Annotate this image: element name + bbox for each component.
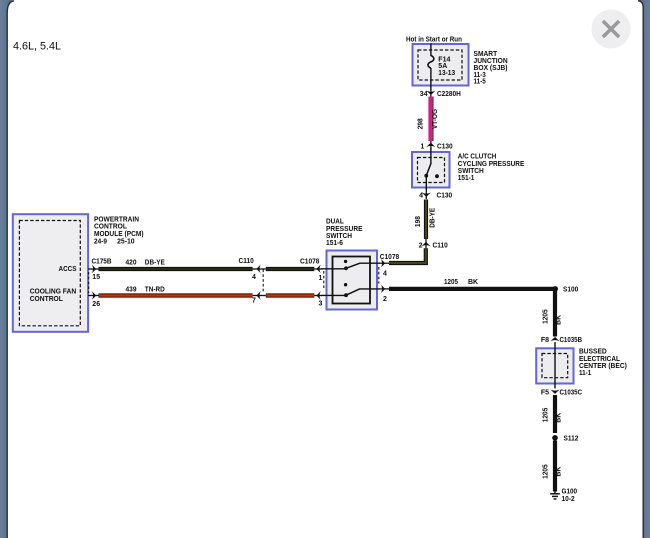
svg-text:4.6L, 5.4L: 4.6L, 5.4L — [13, 40, 61, 52]
svg-text:2: 2 — [383, 296, 387, 303]
svg-text:MODULE (PCM): MODULE (PCM) — [94, 231, 144, 238]
svg-text:C130: C130 — [437, 193, 453, 200]
svg-text:A/C CLUTCH: A/C CLUTCH — [458, 154, 497, 161]
svg-text:S100: S100 — [563, 287, 578, 294]
svg-text:3: 3 — [319, 300, 323, 307]
svg-text:S112: S112 — [564, 436, 579, 443]
svg-text:151-1: 151-1 — [458, 175, 475, 182]
svg-text:1205: 1205 — [444, 279, 458, 286]
svg-text:439: 439 — [126, 286, 137, 293]
svg-text:VT-OG: VT-OG — [432, 108, 439, 129]
svg-text:F8: F8 — [541, 337, 549, 344]
svg-text:ACCS: ACCS — [59, 266, 77, 273]
svg-text:CONTROL: CONTROL — [30, 296, 64, 303]
svg-text:1: 1 — [319, 275, 323, 282]
svg-text:DB-YE: DB-YE — [145, 260, 165, 267]
svg-text:C1078: C1078 — [380, 254, 400, 261]
svg-text:COOLING FAN: COOLING FAN — [30, 289, 76, 296]
svg-text:15: 15 — [92, 274, 100, 281]
svg-text:C2280H: C2280H — [437, 91, 461, 98]
svg-text:13-13: 13-13 — [438, 70, 455, 77]
svg-text:C130: C130 — [437, 143, 453, 150]
svg-text:BK: BK — [556, 315, 563, 325]
svg-text:C1035C: C1035C — [560, 390, 583, 397]
svg-text:C175B: C175B — [92, 259, 112, 266]
svg-text:4: 4 — [252, 274, 256, 281]
svg-text:BK: BK — [556, 467, 563, 477]
svg-text:DB-YE: DB-YE — [430, 207, 437, 227]
svg-text:SWITCH: SWITCH — [458, 168, 484, 175]
svg-text:BUSSED: BUSSED — [579, 349, 607, 356]
svg-text:SWITCH: SWITCH — [326, 233, 352, 240]
svg-text:11-1: 11-1 — [579, 370, 591, 377]
svg-text:34: 34 — [420, 91, 428, 98]
svg-text:C110: C110 — [239, 258, 254, 265]
svg-text:26: 26 — [92, 301, 100, 308]
svg-text:G100: G100 — [562, 489, 578, 496]
svg-text:BK: BK — [556, 413, 563, 423]
svg-text:10-2: 10-2 — [562, 496, 575, 503]
svg-text:DUAL: DUAL — [326, 219, 344, 226]
svg-text:1205: 1205 — [542, 408, 549, 423]
svg-text:4: 4 — [383, 271, 387, 278]
svg-text:C1078: C1078 — [300, 258, 320, 265]
svg-text:1205: 1205 — [542, 464, 549, 479]
svg-text:C1035B: C1035B — [560, 337, 583, 344]
svg-text:SMART: SMART — [474, 51, 498, 58]
svg-text:CYCLING PRESSURE: CYCLING PRESSURE — [458, 161, 525, 168]
svg-text:C110: C110 — [433, 243, 448, 250]
svg-text:ELECTRICAL: ELECTRICAL — [579, 356, 621, 363]
svg-text:Hot in Start or Run: Hot in Start or Run — [406, 37, 462, 44]
svg-text:1: 1 — [420, 143, 424, 150]
svg-text:CONTROL: CONTROL — [94, 224, 128, 231]
svg-text:7: 7 — [252, 298, 256, 305]
svg-text:BK: BK — [468, 279, 478, 286]
svg-text:198: 198 — [415, 216, 422, 227]
svg-text:4: 4 — [419, 193, 423, 200]
svg-text:TN-RD: TN-RD — [145, 286, 165, 293]
svg-text:POWERTRAIN: POWERTRAIN — [94, 216, 139, 223]
svg-text:24-9: 24-9 — [94, 238, 107, 245]
svg-text:298: 298 — [418, 118, 425, 129]
svg-text:151-6: 151-6 — [326, 240, 343, 247]
svg-text:420: 420 — [126, 260, 137, 267]
svg-text:F5: F5 — [541, 390, 549, 397]
svg-text:1205: 1205 — [542, 309, 549, 324]
svg-text:PRESSURE: PRESSURE — [326, 226, 363, 233]
svg-text:JUNCTION: JUNCTION — [474, 58, 508, 65]
svg-text:11-5: 11-5 — [474, 79, 486, 86]
svg-text:25-10: 25-10 — [117, 238, 135, 245]
